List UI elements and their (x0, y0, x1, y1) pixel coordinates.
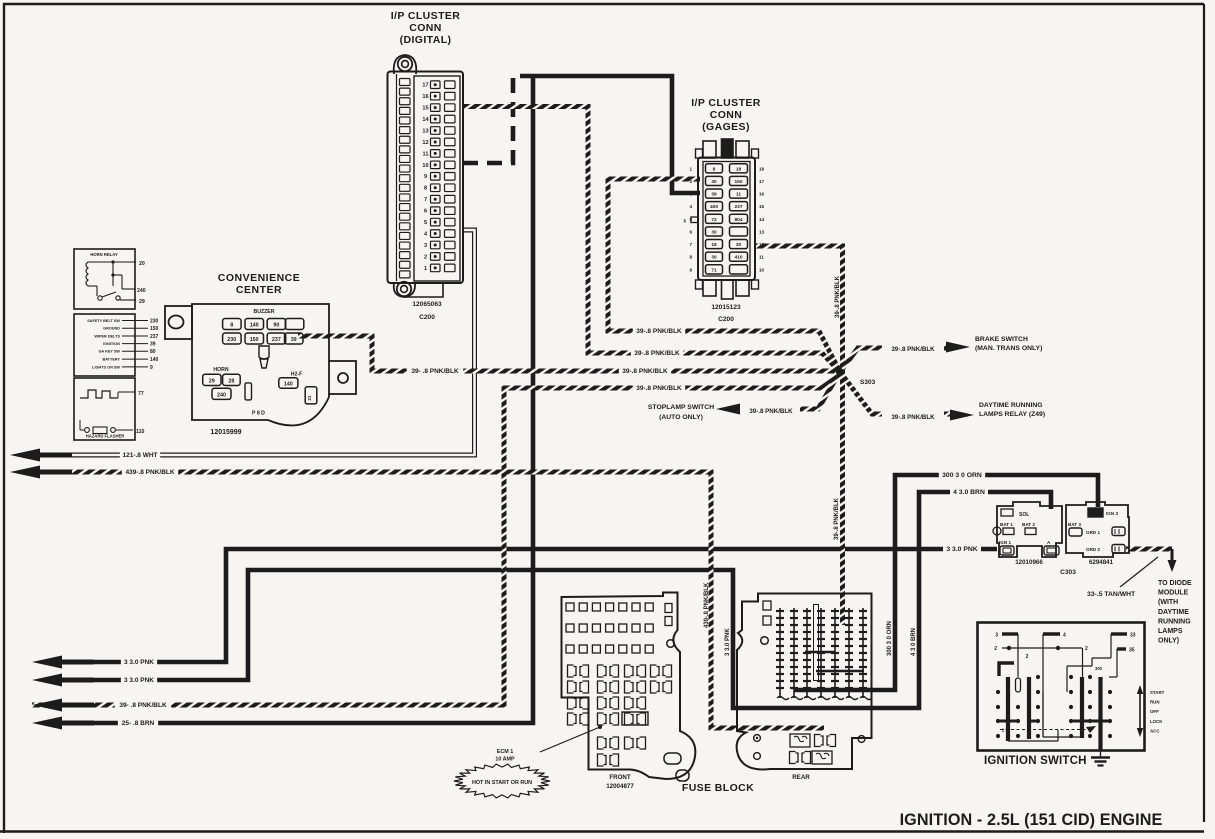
svg-text:BATTERY: BATTERY (102, 358, 120, 362)
svg-text:8: 8 (689, 255, 692, 260)
svg-text:3 3.0 PNK: 3 3.0 PNK (725, 628, 731, 656)
svg-text:17: 17 (422, 83, 428, 89)
svg-text:4 3.0 BRN: 4 3.0 BRN (953, 489, 985, 496)
svg-text:2: 2 (1026, 654, 1029, 660)
svg-text:300 3 0 ORN: 300 3 0 ORN (887, 621, 893, 656)
svg-text:9: 9 (689, 267, 692, 272)
svg-text:4 3 0 BRN: 4 3 0 BRN (911, 628, 917, 656)
svg-text:(DIGITAL): (DIGITAL) (400, 34, 452, 46)
svg-text:18: 18 (736, 166, 742, 172)
svg-text:39: 39 (291, 337, 297, 343)
svg-text:(AUTO ONLY): (AUTO ONLY) (659, 414, 703, 421)
svg-text:4: 4 (1063, 633, 1066, 639)
svg-text:410: 410 (734, 255, 742, 261)
svg-text:2: 2 (424, 254, 427, 260)
svg-text:DAYTIME RUNNING: DAYTIME RUNNING (979, 402, 1043, 409)
svg-text:I/P CLUSTER: I/P CLUSTER (391, 10, 461, 22)
svg-text:BAT 2: BAT 2 (1022, 522, 1035, 527)
svg-text:400: 400 (710, 204, 718, 210)
svg-text:LAMPS RELAY (Z49): LAMPS RELAY (Z49) (979, 411, 1045, 418)
svg-text:237: 237 (150, 334, 159, 340)
svg-text:IGNITION - 2.5L (151 CID) ENGI: IGNITION - 2.5L (151 CID) ENGINE (900, 811, 1163, 829)
svg-text:2: 2 (994, 646, 997, 652)
svg-text:15: 15 (759, 204, 765, 209)
svg-text:39-.8 PNK/BLK: 39-.8 PNK/BLK (834, 497, 840, 540)
svg-text:IGNITION: IGNITION (103, 342, 120, 346)
svg-text:9: 9 (150, 365, 153, 371)
svg-text:5: 5 (424, 220, 427, 226)
svg-text:8: 8 (713, 166, 716, 172)
svg-text:12015999: 12015999 (210, 429, 241, 436)
svg-text:1: 1 (424, 266, 427, 272)
svg-text:140: 140 (284, 382, 293, 388)
svg-text:C303: C303 (1060, 569, 1076, 576)
svg-text:39-.8 PNK/BLK: 39-.8 PNK/BLK (622, 368, 668, 375)
svg-text:39-.8 PNK/BLK: 39-.8 PNK/BLK (891, 346, 935, 353)
svg-text:439-.8 PNK/BLK: 439-.8 PNK/BLK (125, 469, 174, 476)
svg-text:39-.8 PNK/BLK: 39-.8 PNK/BLK (636, 385, 682, 392)
svg-text:30: 30 (711, 255, 717, 261)
svg-text:6294841: 6294841 (1089, 559, 1114, 566)
svg-text:3: 3 (424, 243, 427, 249)
svg-text:STOPLAMP SWITCH: STOPLAMP SWITCH (648, 404, 714, 411)
svg-text:CONVENIENCE: CONVENIENCE (218, 272, 301, 284)
svg-text:33: 33 (1130, 633, 1136, 639)
svg-text:15: 15 (422, 106, 428, 112)
svg-text:2: 2 (1085, 646, 1088, 652)
svg-text:(WITH: (WITH (1158, 599, 1178, 606)
svg-text:LAMPS: LAMPS (1158, 628, 1183, 635)
svg-text:START: START (1150, 690, 1165, 695)
svg-text:HORN: HORN (213, 367, 229, 373)
svg-text:90: 90 (273, 323, 279, 329)
svg-text:25- .8 BRN: 25- .8 BRN (122, 720, 155, 727)
svg-text:CENTER: CENTER (236, 284, 282, 296)
svg-text:18: 18 (711, 242, 717, 248)
svg-text:10: 10 (422, 163, 428, 169)
svg-text:FUSE BLOCK: FUSE BLOCK (682, 782, 754, 794)
svg-text:20: 20 (139, 261, 145, 267)
svg-text:BRAKE SWITCH: BRAKE SWITCH (975, 336, 1028, 343)
svg-text:39-.8 PNK/BLK: 39-.8 PNK/BLK (835, 275, 841, 318)
svg-text:14: 14 (759, 217, 765, 222)
svg-text:72: 72 (711, 217, 717, 223)
svg-text:DAYTIME: DAYTIME (1158, 609, 1189, 616)
svg-text:ECM 1: ECM 1 (497, 749, 513, 755)
svg-text:S303: S303 (860, 379, 876, 386)
svg-text:39-.8 PNK/BLK: 39-.8 PNK/BLK (634, 350, 680, 357)
svg-text:7: 7 (689, 242, 692, 247)
svg-text:10: 10 (759, 267, 765, 272)
svg-text:12015123: 12015123 (711, 304, 741, 311)
svg-text:140: 140 (250, 323, 259, 329)
svg-text:39: 39 (150, 342, 156, 348)
svg-text:17: 17 (759, 179, 765, 184)
svg-text:150: 150 (150, 326, 159, 332)
svg-text:39-.8 PNK/BLK: 39-.8 PNK/BLK (636, 328, 682, 335)
svg-text:LOCK: LOCK (1150, 719, 1163, 724)
svg-text:30: 30 (711, 229, 717, 235)
svg-text:TO DIODE: TO DIODE (1158, 580, 1192, 587)
svg-text:HOT IN START OR RUN: HOT IN START OR RUN (472, 780, 532, 786)
svg-text:110: 110 (136, 429, 144, 435)
svg-text:12004877: 12004877 (606, 783, 634, 790)
svg-text:140: 140 (150, 357, 159, 363)
svg-text:14: 14 (422, 117, 429, 123)
svg-text:HAZARD FLASHER: HAZARD FLASHER (86, 434, 125, 439)
svg-text:(MAN. TRANS ONLY): (MAN. TRANS ONLY) (975, 345, 1042, 352)
svg-text:3 3.0 PNK: 3 3.0 PNK (124, 659, 154, 666)
svg-text:OFF: OFF (1150, 709, 1159, 714)
svg-text:GRD 2: GRD 2 (1086, 547, 1100, 552)
svg-text:FRONT: FRONT (609, 774, 631, 781)
svg-text:6: 6 (424, 209, 427, 215)
svg-text:BAT 3: BAT 3 (1068, 522, 1081, 527)
svg-text:8: 8 (424, 186, 427, 192)
svg-text:30: 30 (736, 242, 742, 248)
svg-text:12065063: 12065063 (412, 301, 442, 308)
svg-text:LIGHTS ON SW: LIGHTS ON SW (92, 365, 120, 369)
svg-text:7: 7 (424, 197, 427, 203)
svg-text:39-.8 PNK/BLK: 39-.8 PNK/BLK (749, 408, 793, 415)
svg-text:39: 39 (711, 192, 717, 198)
svg-text:H2-F: H2-F (291, 371, 303, 377)
svg-text:300: 300 (1095, 666, 1103, 671)
svg-text:MODULE: MODULE (1158, 590, 1189, 597)
svg-text:GRD 1: GRD 1 (1086, 530, 1100, 535)
svg-text:BAT 1: BAT 1 (1000, 522, 1013, 527)
svg-text:2: 2 (689, 179, 692, 184)
svg-text:29: 29 (209, 378, 215, 384)
svg-text:P 8 D: P 8 D (252, 410, 265, 416)
svg-text:ACC: ACC (1150, 728, 1160, 733)
svg-text:150: 150 (734, 179, 742, 185)
svg-text:300 3 0 ORN: 300 3 0 ORN (942, 472, 982, 479)
svg-text:RUNNING: RUNNING (1158, 618, 1191, 625)
svg-text:30: 30 (711, 179, 717, 185)
svg-text:11: 11 (423, 151, 429, 157)
svg-text:13: 13 (422, 128, 428, 134)
svg-text:121-.8 WHT: 121-.8 WHT (122, 452, 157, 459)
svg-text:230: 230 (150, 319, 159, 325)
svg-text:HORN RELAY: HORN RELAY (90, 252, 118, 257)
svg-text:ONLY): ONLY) (1158, 638, 1179, 645)
svg-text:150: 150 (250, 337, 259, 343)
svg-text:230: 230 (227, 337, 236, 343)
svg-text:29: 29 (139, 299, 145, 305)
svg-text:804: 804 (734, 217, 742, 223)
svg-text:237: 237 (734, 204, 742, 210)
svg-text:12: 12 (422, 140, 428, 146)
svg-text:16: 16 (422, 94, 428, 100)
svg-text:RUN: RUN (1150, 700, 1160, 705)
svg-text:39- .8 PNK/BLK: 39- .8 PNK/BLK (411, 368, 459, 375)
svg-text:C200: C200 (718, 316, 734, 323)
svg-text:C200: C200 (419, 314, 435, 321)
svg-text:3: 3 (689, 192, 692, 197)
svg-text:71: 71 (711, 267, 717, 273)
svg-text:33-.5 TAN/WHT: 33-.5 TAN/WHT (1087, 591, 1136, 598)
svg-text:13: 13 (759, 229, 765, 234)
svg-text:77: 77 (138, 391, 144, 397)
svg-text:1: 1 (689, 166, 692, 171)
svg-text:439-.8 PNK/BLK: 439-.8 PNK/BLK (704, 582, 710, 628)
svg-text:240: 240 (137, 288, 146, 294)
svg-text:IGN 1: IGN 1 (999, 540, 1011, 545)
svg-text:9: 9 (424, 174, 427, 180)
svg-text:BUZZER: BUZZER (253, 309, 274, 315)
svg-text:GA KEY SW: GA KEY SW (98, 350, 120, 354)
svg-text:237: 237 (272, 337, 281, 343)
svg-text:8: 8 (230, 323, 233, 329)
svg-text:28: 28 (228, 378, 234, 384)
svg-text:3 3.0 PNK: 3 3.0 PNK (946, 546, 977, 553)
svg-text:11: 11 (759, 255, 764, 260)
svg-text:(GAGES): (GAGES) (702, 121, 750, 133)
svg-text:18: 18 (759, 166, 765, 171)
svg-text:WIPER DELTS: WIPER DELTS (94, 335, 120, 339)
svg-text:240: 240 (217, 392, 226, 398)
svg-text:4: 4 (689, 204, 692, 209)
svg-text:10 AMP: 10 AMP (495, 757, 515, 763)
svg-text:IGNITION SWITCH: IGNITION SWITCH (984, 755, 1087, 767)
svg-text:12010966: 12010966 (1015, 559, 1043, 566)
svg-text:IGN 3: IGN 3 (1106, 511, 1118, 516)
svg-text:5: 5 (683, 219, 686, 224)
svg-text:35: 35 (1129, 648, 1135, 654)
svg-text:80: 80 (150, 349, 156, 355)
svg-text:CONN: CONN (409, 22, 442, 34)
svg-text:3: 3 (995, 633, 998, 639)
svg-text:39- .8 PNK/BLK: 39- .8 PNK/BLK (119, 702, 167, 709)
svg-text:11: 11 (736, 192, 741, 198)
svg-text:16: 16 (759, 192, 765, 197)
svg-text:SAFETY BELT SW: SAFETY BELT SW (87, 319, 120, 323)
svg-text:12: 12 (759, 242, 765, 247)
svg-text:3 3.0 PNK: 3 3.0 PNK (124, 677, 154, 684)
svg-text:GROUND: GROUND (103, 327, 120, 331)
svg-text:CONN: CONN (710, 109, 743, 121)
svg-text:39-.8 PNK/BLK: 39-.8 PNK/BLK (891, 414, 935, 421)
svg-text:SOL: SOL (1019, 512, 1029, 518)
svg-text:I/P CLUSTER: I/P CLUSTER (691, 97, 761, 109)
svg-text:REAR: REAR (792, 774, 810, 781)
svg-text:21: 21 (307, 395, 312, 401)
svg-text:6: 6 (689, 229, 692, 234)
